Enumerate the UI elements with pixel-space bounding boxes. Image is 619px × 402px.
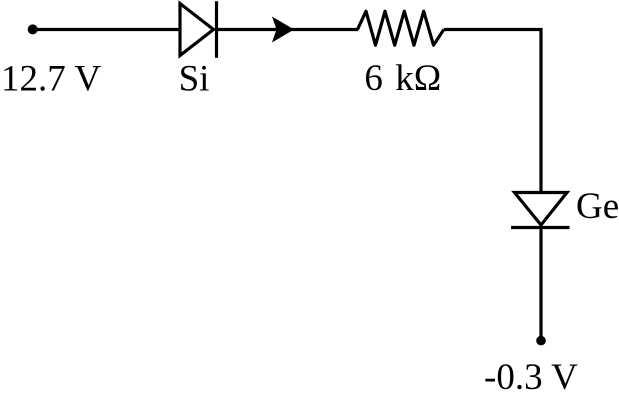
wire: left terminal to diode D1 anode (33, 28, 181, 31)
diode D1 (Si) triangle (180, 4, 214, 56)
svg-text:Si: Si (179, 59, 210, 100)
svg-text:12.7 V: 12.7 V (1, 58, 101, 99)
svg-text:Ge: Ge (576, 186, 619, 227)
svg-text:6: 6 (364, 58, 383, 99)
svg-text:kΩ: kΩ (395, 58, 441, 99)
node B: bottom output terminal dot (536, 336, 546, 346)
diode D1 (Si) cathode bar (215, 1, 218, 58)
wire: vertical down to diode D2 (539, 28, 542, 194)
svg-text:-0.3 V: -0.3 V (484, 357, 578, 398)
resistor R1 zigzag (358, 11, 444, 45)
node A: left input terminal dot (28, 24, 38, 34)
diode D2 (Ge) triangle (515, 193, 568, 226)
wire: diode D2 to bottom terminal (539, 228, 542, 341)
wire: diode D1 to resistor R1 (217, 28, 359, 31)
wire: resistor R1 to top-right corner (444, 28, 543, 31)
diode D2 (Ge) cathode bar (511, 226, 570, 229)
current direction arrowhead (272, 17, 294, 43)
